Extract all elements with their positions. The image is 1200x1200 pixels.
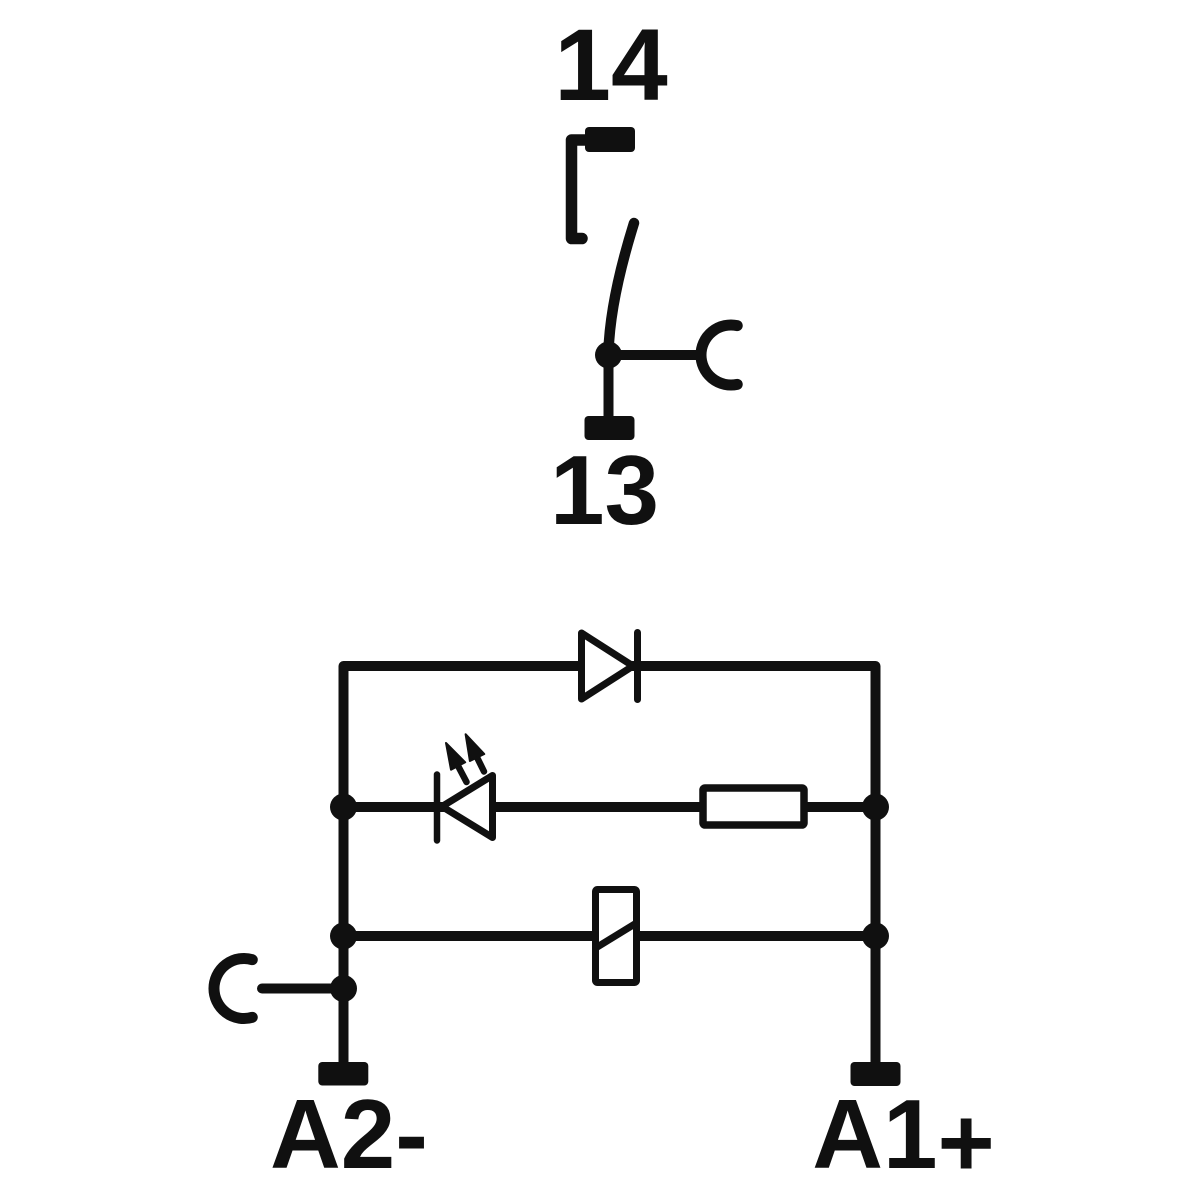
plug socket contact (top) (701, 325, 737, 385)
LED indicator (437, 775, 493, 841)
junction dot A2 plug branch (330, 975, 357, 1002)
svg-text:13: 13 (550, 435, 659, 545)
wire middle branch (344, 802, 876, 812)
junction dot middle-left (330, 794, 357, 821)
node at contact 13 (595, 342, 622, 369)
switch lever (NO contact 13-14) (609, 223, 635, 352)
series resistor R1 (703, 788, 804, 825)
wire node to socket (609, 350, 697, 360)
relay coil K1 (594, 890, 638, 983)
junction dot bottom-right (862, 923, 889, 950)
junction dot bottom-left (330, 923, 357, 950)
plug socket contact (bottom, A2) (214, 959, 252, 1019)
terminal block A1 (851, 1062, 901, 1086)
LED emission arrow 1 (446, 743, 467, 782)
freewheeling diode V1 (582, 633, 638, 700)
svg-text:A2-: A2- (270, 1079, 428, 1189)
junction dot middle-right (862, 794, 889, 821)
LED emission arrow 2 (466, 734, 485, 771)
fixed contact hook of switch (572, 140, 586, 239)
terminal block 14 (585, 127, 635, 152)
wire bottom branch (344, 931, 876, 941)
svg-text:14: 14 (554, 8, 668, 122)
svg-text:A1+: A1+ (812, 1079, 995, 1197)
wire node to terminal 13 (604, 355, 614, 419)
wire socket to A2 rail (262, 984, 344, 994)
terminal block 13 (585, 416, 635, 440)
coil circuit outer loop wire (344, 666, 876, 1064)
terminal block A2 (318, 1062, 368, 1086)
